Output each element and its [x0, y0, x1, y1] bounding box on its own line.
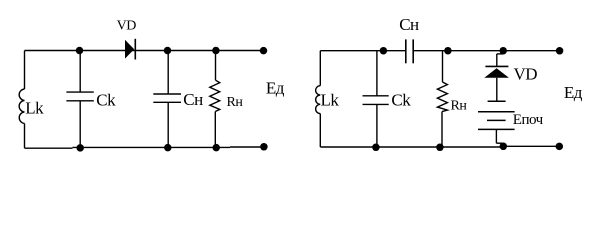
- svg-text:Cн: Cн: [183, 90, 203, 109]
- svg-text:VD: VD: [514, 65, 538, 84]
- svg-text:Rн: Rн: [451, 99, 468, 114]
- svg-text:Ck: Ck: [391, 91, 411, 110]
- svg-text:Lk: Lk: [321, 91, 340, 110]
- svg-text:Ед: Ед: [564, 83, 583, 102]
- svg-text:VD: VD: [117, 18, 137, 33]
- svg-text:Ед: Ед: [266, 79, 285, 98]
- svg-text:Ck: Ck: [96, 91, 116, 110]
- svg-text:Eпоч: Eпоч: [513, 112, 544, 128]
- svg-text:Cн: Cн: [399, 15, 419, 34]
- svg-text:Rн: Rн: [227, 95, 244, 110]
- svg-text:Lk: Lk: [25, 99, 44, 118]
